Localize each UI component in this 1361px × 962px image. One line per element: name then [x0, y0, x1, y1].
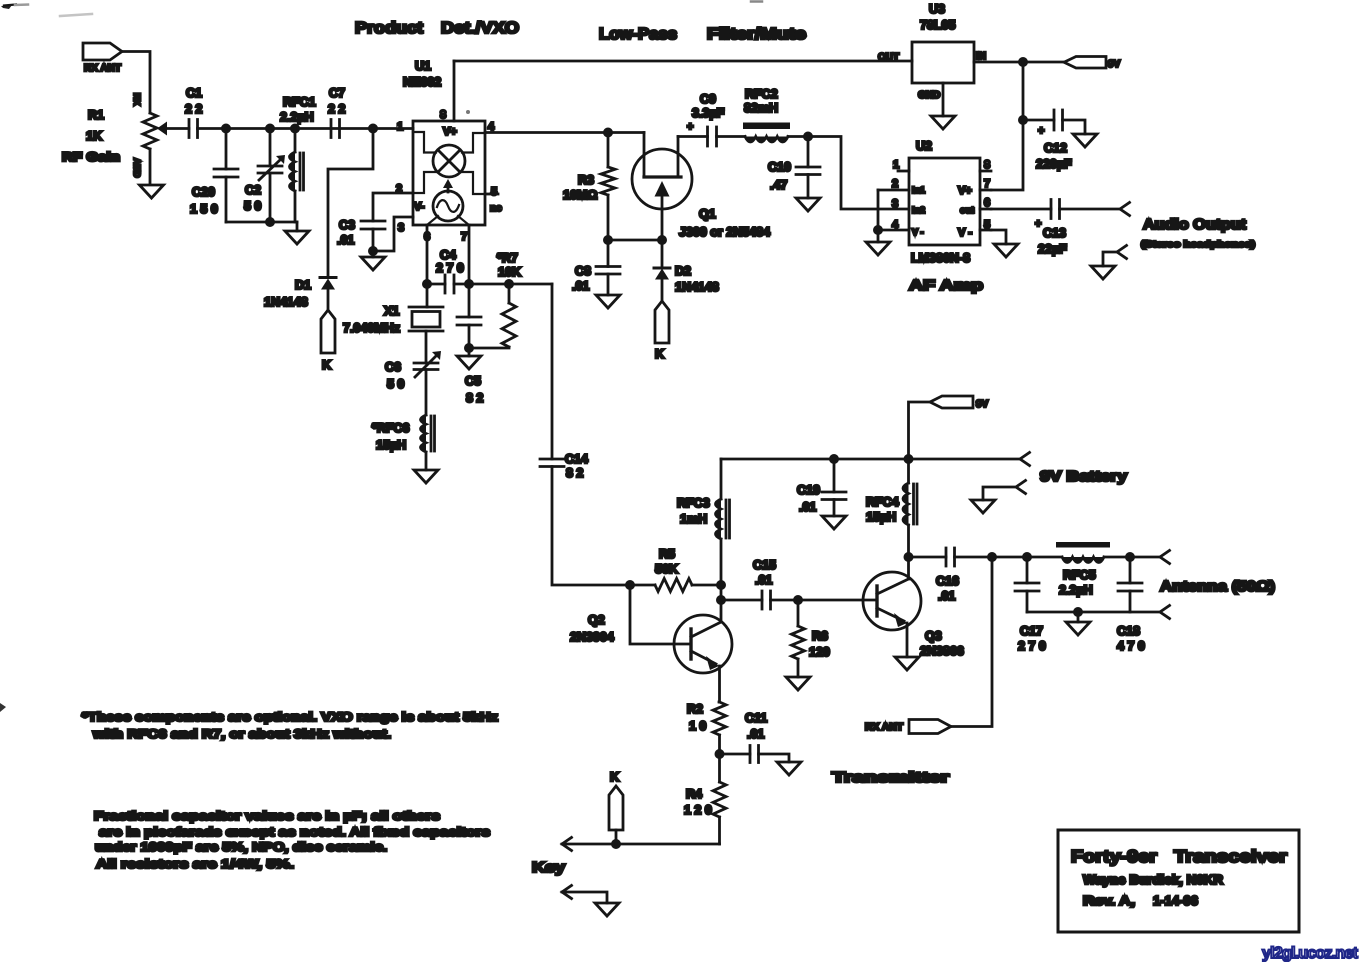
- node pin6 X1: [423, 280, 430, 287]
- capacitor C8 .01: [572, 240, 620, 295]
- wire U1 pin 7 down: [468, 225, 471, 284]
- svg-text:C11: C11: [745, 711, 767, 725]
- capacitor C15 .01: [721, 558, 798, 609]
- resistor R6 120: [792, 600, 830, 677]
- svg-text:4: 4: [892, 219, 899, 231]
- svg-text:RFC4: RFC4: [866, 495, 899, 509]
- svg-text:C12: C12: [1044, 141, 1067, 155]
- resistor R3 10M: [563, 133, 615, 241]
- ground below U2 input: [866, 230, 890, 255]
- note capacitors line 1: [94, 809, 440, 823]
- capacitor C5 82: [457, 284, 483, 405]
- svg-text:C1: C1: [186, 86, 202, 100]
- title block box: [1058, 830, 1299, 932]
- svg-text:R5: R5: [659, 547, 675, 561]
- resistor R2 10: [687, 702, 726, 754]
- svg-text:C10: C10: [768, 160, 791, 174]
- capacitor C11 .01: [720, 711, 790, 763]
- svg-text:LM380N-8: LM380N-8: [911, 251, 970, 265]
- wire RX ANT to antenna node: [951, 557, 992, 727]
- svg-text:J309 or 2N5484: J309 or 2N5484: [679, 225, 770, 239]
- ground below C5: [457, 356, 481, 369]
- node antenna line left: [988, 553, 995, 560]
- svg-text:C13: C13: [1043, 226, 1066, 240]
- node Q3 collector: [905, 553, 912, 560]
- label stereo headphones: [1141, 239, 1255, 249]
- svg-text:3: 3: [398, 222, 404, 234]
- U1 pin number 1: [397, 121, 403, 133]
- label Transmitter: [832, 770, 950, 786]
- wire R5 node to Q2 base: [630, 585, 691, 644]
- svg-text:Det./VXO: Det./VXO: [441, 20, 519, 37]
- inductor RFC3 1mH: [677, 496, 730, 539]
- svg-text:10K: 10K: [498, 265, 521, 279]
- wire C13 to audio terminal: [1060, 208, 1121, 211]
- diode D1 1N4148: [264, 278, 336, 310]
- voltage regulator U3 78L05: [878, 42, 986, 101]
- node RFC1 tap: [291, 125, 298, 132]
- wire bottom bus C20-C2-RFC1: [226, 221, 297, 224]
- wire 9V node down to U2 pin 7: [991, 62, 1023, 190]
- U1 pin number 7: [461, 231, 467, 243]
- svg-text:8 2: 8 2: [566, 466, 583, 480]
- inductor RFC6 15uH: [372, 415, 435, 470]
- wire U1 pin 8 to top rail: [453, 61, 456, 121]
- svg-text:2.2µH: 2.2µH: [280, 110, 314, 124]
- svg-text:C9: C9: [700, 92, 716, 106]
- ground below RFC1: [285, 222, 309, 244]
- svg-text:All resistors are 1/4W, 5%.: All resistors are 1/4W, 5%.: [96, 857, 294, 871]
- wire antenna bottom bus: [1027, 611, 1160, 614]
- svg-text:C15: C15: [753, 558, 776, 572]
- terminal key sleeve: [562, 886, 607, 904]
- svg-text:C16: C16: [936, 574, 959, 588]
- watermark yl2gl.ucoz.net: [1262, 945, 1359, 962]
- node C11 tap: [716, 750, 723, 757]
- svg-text:7.040MHz: 7.040MHz: [343, 321, 400, 335]
- terminal antenna return: [1160, 606, 1170, 619]
- wire D2 to K: [661, 280, 664, 302]
- svg-text:K: K: [322, 358, 331, 372]
- note optional components line 1: [82, 710, 498, 724]
- svg-text:R1: R1: [88, 108, 104, 122]
- svg-text:.01: .01: [572, 279, 589, 293]
- node C20 tap: [222, 125, 229, 132]
- potentiometer R1 1K RF Gain: [132, 93, 167, 184]
- label Q1 J309 or 2N5484: [679, 207, 770, 239]
- wire TX top rail: [721, 458, 1020, 461]
- node 9V rail tap: [905, 455, 912, 462]
- oscillator symbol in U1: [433, 191, 463, 221]
- wire RFC3 to R5 node: [720, 539, 723, 600]
- ground antenna bus: [1066, 612, 1090, 635]
- svg-text:15µH: 15µH: [866, 510, 896, 524]
- ground below U3: [931, 116, 955, 129]
- capacitor C19 .01: [797, 459, 846, 516]
- svg-text:9V Battery: 9V Battery: [1040, 469, 1127, 485]
- arrow oscillator to mixer: [443, 179, 453, 192]
- title author: [1083, 872, 1224, 887]
- transistor Q3 2N3866: [863, 557, 921, 657]
- transistor Q1 J309 JFET: [632, 133, 692, 210]
- svg-text:Q3: Q3: [925, 629, 942, 643]
- ground below C19: [822, 516, 846, 529]
- label Q2 2N3904: [570, 613, 614, 644]
- U2 pin 7 stub: [980, 178, 991, 190]
- svg-text:In2: In2: [912, 205, 925, 215]
- wire U1 pin 3 to ground node: [373, 217, 413, 251]
- svg-text:7: 7: [461, 231, 467, 243]
- svg-text:are in picofarads except as no: are in picofarads except as noted. All f…: [99, 825, 490, 839]
- label U2: [916, 139, 932, 153]
- node R6 top: [794, 596, 801, 603]
- capacitor C17 270: [1015, 557, 1046, 653]
- wire U2 pin5 to ground: [991, 230, 1006, 244]
- label Antenna 50 ohm: [1160, 579, 1275, 595]
- svg-text:2N3866: 2N3866: [920, 644, 964, 658]
- transistor Q2 2N3904: [674, 600, 732, 702]
- svg-text:Product: Product: [355, 20, 424, 37]
- svg-text:RF Gain: RF Gain: [62, 150, 120, 164]
- svg-text:15µH: 15µH: [376, 438, 406, 452]
- mixer symbol in U1: [433, 145, 465, 177]
- svg-text:C17: C17: [1020, 624, 1043, 638]
- svg-text:R6: R6: [812, 629, 828, 643]
- svg-text:RFC3: RFC3: [677, 496, 710, 510]
- node antenna ground: [1074, 608, 1081, 615]
- inductor RFC4 15uH: [866, 459, 917, 557]
- capacitor C10 .47: [768, 137, 820, 199]
- wire top rail to U3: [454, 60, 912, 63]
- wire U1 pin 6 down: [426, 225, 429, 284]
- svg-text:.47: .47: [770, 178, 787, 192]
- svg-text:U3: U3: [929, 2, 945, 16]
- wire U3 IN to 9V: [974, 61, 1064, 64]
- svg-text:RFC5: RFC5: [1063, 568, 1096, 582]
- svg-text:82mH: 82mH: [744, 101, 778, 115]
- wire R3 to Q1 source: [608, 209, 662, 240]
- svg-text:78L05: 78L05: [920, 18, 955, 32]
- svg-text:Q2: Q2: [588, 613, 605, 627]
- svg-text:RX ANT: RX ANT: [865, 722, 903, 733]
- svg-text:3.3µF: 3.3µF: [692, 106, 725, 120]
- label Q3 2N3866: [920, 629, 964, 658]
- svg-text:8: 8: [984, 159, 990, 171]
- svg-text:with RFC6 and R7, or about 3kH: with RFC6 and R7, or about 3kHz without.: [92, 727, 391, 741]
- U1 internal pin 2 path: [413, 172, 436, 193]
- wire U1 pin 4 to Q1: [485, 131, 644, 134]
- node C15 tap: [717, 596, 724, 603]
- node C2 bottom: [266, 218, 273, 225]
- svg-text:OUT: OUT: [878, 52, 899, 63]
- U1 internal pin 7 path: [458, 216, 469, 225]
- ground at C11: [777, 762, 801, 775]
- wire node to D1: [328, 129, 373, 278]
- wire C15 to Q3 base: [798, 599, 877, 602]
- node C18 top: [1126, 553, 1133, 560]
- svg-text:nc: nc: [490, 203, 502, 214]
- svg-text:*R7: *R7: [497, 251, 518, 265]
- wire U2 ground bar pins 2-4: [877, 190, 880, 230]
- node C12 tap: [1019, 116, 1026, 123]
- svg-text:1-14-96: 1-14-96: [1153, 893, 1198, 908]
- svg-text:2 2: 2 2: [328, 102, 345, 116]
- label U1 NE602: [403, 59, 441, 89]
- capacitor C1 22: [185, 86, 202, 138]
- svg-text:V -: V -: [912, 227, 924, 237]
- svg-text:C6: C6: [385, 360, 401, 374]
- svg-text:out: out: [960, 205, 974, 215]
- svg-text:.01: .01: [747, 727, 764, 741]
- svg-text:C5: C5: [465, 374, 481, 388]
- svg-text:5: 5: [491, 186, 497, 198]
- svg-text:Low-Pass: Low-Pass: [599, 26, 677, 43]
- svg-text:X1: X1: [384, 304, 399, 318]
- svg-text:(Stereo headphones): (Stereo headphones): [1141, 239, 1255, 249]
- wire R1 wiper to C1: [167, 127, 189, 130]
- U1 pin 5 nc stub: [485, 194, 502, 214]
- wire C1 to U1 pin 1: [198, 127, 414, 130]
- terminal RX ANT (tx side): [865, 720, 951, 734]
- node C2 tap: [266, 125, 273, 132]
- U1 internal pin 1 path: [413, 132, 436, 153]
- wire C3 to ground node: [372, 229, 375, 251]
- capacitor C4 270: [427, 248, 469, 293]
- svg-text:1mH: 1mH: [680, 512, 707, 526]
- U2 pin 6 stub: [980, 197, 991, 209]
- capacitor C7 22: [328, 86, 345, 138]
- svg-text:220µF: 220µF: [1036, 157, 1072, 171]
- ground below C10: [796, 198, 820, 211]
- terminal key tip: [562, 838, 572, 851]
- svg-text:1N4148: 1N4148: [264, 295, 308, 309]
- terminal 9V battery minus: [983, 481, 1026, 501]
- svg-text:AUD: AUD: [132, 158, 142, 178]
- svg-text:.01: .01: [938, 589, 955, 603]
- svg-text:2 2: 2 2: [185, 102, 202, 116]
- node R5 right RFC3: [717, 581, 724, 588]
- svg-text:+: +: [1035, 218, 1041, 230]
- label Audio Output: [1143, 217, 1246, 233]
- svg-text:D2: D2: [675, 264, 691, 278]
- svg-text:RX ANT: RX ANT: [84, 63, 121, 74]
- wire C4 node to R7 and C14: [469, 283, 552, 286]
- svg-text:NE602: NE602: [403, 75, 441, 89]
- svg-text:C3: C3: [339, 218, 355, 232]
- variable capacitor C6 50: [385, 331, 441, 415]
- svg-text:1: 1: [893, 159, 899, 171]
- label LM380N-8: [911, 251, 970, 265]
- terminal 9V battery plus: [1020, 453, 1030, 466]
- label R1 1K RF Gain: [62, 108, 120, 164]
- svg-text:120: 120: [809, 645, 830, 659]
- variable capacitor C2 50: [244, 129, 285, 223]
- svg-text:1K: 1K: [86, 129, 102, 143]
- svg-text:In1: In1: [912, 185, 925, 195]
- svg-text:22µF: 22µF: [1038, 242, 1067, 256]
- svg-text:56K: 56K: [655, 562, 678, 576]
- capacitor C13 22uF polarized: [1035, 200, 1067, 257]
- capacitor C14 82: [540, 452, 588, 480]
- svg-text:6: 6: [984, 197, 990, 209]
- svg-text:C2: C2: [245, 183, 261, 197]
- capacitor C12 220uF polarized: [1023, 110, 1085, 171]
- svg-text:8 2: 8 2: [466, 391, 483, 405]
- node D2 top: [658, 236, 665, 243]
- op-amp U1 NE602 body: [413, 121, 485, 225]
- svg-text:3: 3: [892, 198, 898, 210]
- op-amp U2 LM380N-8 body: [909, 158, 980, 245]
- ground below C3: [361, 251, 385, 270]
- node U2 pin4 ground: [874, 226, 881, 233]
- svg-text:Antenna (50Ω): Antenna (50Ω): [1160, 579, 1275, 595]
- svg-text:R3: R3: [578, 173, 594, 187]
- node key K tap: [612, 840, 619, 847]
- svg-text:Key: Key: [532, 860, 565, 876]
- wire U1 pin 2 to C3: [373, 193, 413, 221]
- title revision: [1083, 893, 1198, 908]
- wire D1 to K: [327, 290, 330, 311]
- inductor RFC1 2.2uH: [280, 95, 316, 222]
- svg-text:K: K: [655, 347, 664, 361]
- node C3 ground: [369, 247, 376, 254]
- svg-text:Transceiver: Transceiver: [1174, 847, 1287, 866]
- U1 internal pin 6 path: [427, 216, 438, 225]
- svg-text:RFC2: RFC2: [745, 87, 778, 101]
- svg-text:U1: U1: [415, 59, 431, 73]
- inductor RFC2 82mH: [743, 87, 790, 142]
- svg-text:Q1: Q1: [699, 207, 716, 221]
- svg-text:D1: D1: [295, 278, 311, 292]
- ground at U2 pin5: [994, 244, 1018, 257]
- wire RFC2 to U2 input: [788, 137, 909, 210]
- svg-text:.01: .01: [799, 500, 816, 514]
- svg-text:Rev. A,: Rev. A,: [1083, 893, 1135, 908]
- node C10 top: [804, 133, 811, 140]
- capacitor C16 .01: [909, 548, 993, 603]
- title Forty-9er Transceiver: [1071, 847, 1287, 866]
- ground key sleeve: [595, 903, 619, 916]
- U1 internal pin 5 path: [461, 172, 485, 194]
- svg-text:Wayne Burdick, N6KR: Wayne Burdick, N6KR: [1083, 872, 1224, 887]
- svg-text:Filter/Mute: Filter/Mute: [707, 26, 806, 43]
- title Product Det./VXO: [355, 20, 519, 37]
- svg-text:GND: GND: [918, 90, 940, 101]
- terminal K (key line) at D1: [321, 310, 335, 372]
- terminal K (key) bubble: [609, 770, 623, 844]
- svg-text:R2: R2: [687, 702, 703, 716]
- scan speck near U1: [466, 110, 470, 114]
- svg-text:yl2gl.ucoz.net: yl2gl.ucoz.net: [1262, 945, 1359, 962]
- svg-text:C8: C8: [575, 264, 591, 278]
- svg-text:V+: V+: [958, 185, 972, 197]
- svg-text:RX: RX: [132, 93, 142, 106]
- svg-text:1 0: 1 0: [689, 719, 706, 733]
- ground below C8: [596, 295, 620, 308]
- U1 pin number 5: [491, 186, 497, 198]
- scan artifact top-left: [1, 5, 92, 17]
- svg-text:C19: C19: [797, 483, 820, 497]
- svg-text:C18: C18: [1117, 624, 1140, 638]
- terminal 9V top: [1064, 57, 1121, 71]
- resistor R4 120: [684, 754, 726, 844]
- label U3 78L05: [920, 2, 955, 32]
- note optional components line 2: [92, 727, 391, 741]
- svg-text:C7: C7: [329, 86, 345, 100]
- svg-text:7: 7: [984, 178, 990, 190]
- svg-text:2 7 0: 2 7 0: [1018, 639, 1046, 653]
- svg-text:C20: C20: [192, 185, 215, 199]
- svg-text:V-: V-: [414, 201, 425, 213]
- note resistors: [96, 857, 294, 871]
- U2 pin 3 stub: [892, 198, 898, 210]
- node D1/VXO tap: [369, 125, 376, 132]
- node R5 left: [626, 581, 633, 588]
- capacitor C3 .01: [337, 218, 385, 247]
- ground audio return: [1091, 266, 1115, 279]
- svg-text:Transmitter: Transmitter: [832, 770, 950, 786]
- terminal audio output return: [1103, 246, 1127, 267]
- svg-text:Forty-9er: Forty-9er: [1071, 847, 1157, 866]
- crystal X1 7.040MHz: [343, 284, 443, 335]
- wire C9 to RFC2: [717, 135, 746, 138]
- svg-text:4 7 0: 4 7 0: [1117, 639, 1145, 653]
- wire key line: [562, 843, 720, 846]
- svg-text:1: 1: [397, 121, 403, 133]
- capacitor C18 470: [1117, 557, 1145, 653]
- svg-text:C14: C14: [565, 452, 588, 466]
- svg-text:Audio Output: Audio Output: [1143, 217, 1246, 233]
- resistor R5 56K: [630, 547, 721, 592]
- svg-text:AF Amp: AF Amp: [909, 278, 983, 294]
- node C19 top: [830, 455, 837, 462]
- resistor R7 10K: [469, 251, 521, 348]
- wire C4 node to C14: [551, 284, 554, 459]
- wire U2 out to C13: [991, 208, 1051, 211]
- ground below R6: [786, 677, 810, 690]
- node C8 top: [604, 236, 611, 243]
- svg-text:5 0: 5 0: [244, 199, 261, 213]
- node R3 top: [604, 129, 611, 136]
- U1 pin number 4: [488, 121, 495, 133]
- U1 pin number 6: [424, 231, 430, 243]
- svg-text:1N4148: 1N4148: [675, 280, 719, 294]
- terminal 9V mid: [909, 396, 989, 459]
- U1 pin number 8: [440, 109, 446, 121]
- terminal K (key line) at Q1: [655, 301, 669, 361]
- svg-text:9V: 9V: [1108, 59, 1121, 70]
- svg-text:1 2 0: 1 2 0: [684, 803, 712, 817]
- node C17 top: [1023, 553, 1030, 560]
- svg-text:U2: U2: [916, 139, 932, 153]
- terminal audio output tip: [1120, 203, 1130, 216]
- svg-text:2.2µH: 2.2µH: [1059, 583, 1093, 597]
- svg-text:R4: R4: [686, 787, 702, 801]
- wire RX ANT to R1: [122, 52, 150, 114]
- ground battery minus: [971, 500, 995, 513]
- note capacitors line 3: [95, 840, 387, 854]
- ground below C12: [1073, 134, 1097, 147]
- title Low-Pass Filter/Mute: [599, 26, 806, 43]
- U2 pin 8 stub: [980, 159, 991, 171]
- wire Q1 to C9: [678, 135, 708, 138]
- ground below RFC6: [414, 470, 438, 483]
- svg-text:+: +: [1038, 125, 1044, 137]
- wire C16 node to C17 node: [992, 556, 1027, 559]
- svg-text:K: K: [610, 770, 619, 784]
- label Key: [532, 860, 565, 876]
- node C5 R7 bottom: [465, 344, 472, 351]
